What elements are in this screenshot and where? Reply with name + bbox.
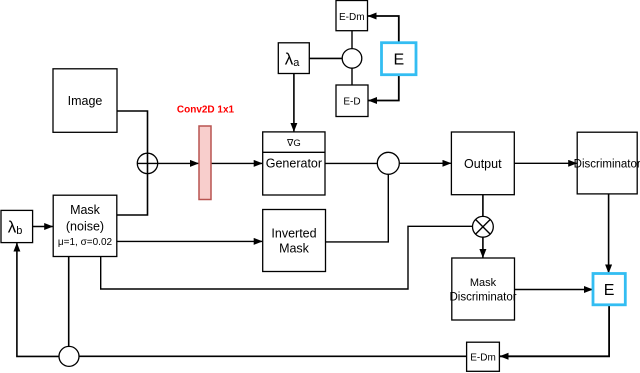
loss combine circle top	[342, 49, 362, 69]
wire loss circle to E-D	[351, 68, 353, 85]
svg-text:μ=1, σ=0.02: μ=1, σ=0.02	[58, 237, 113, 248]
Conv2D 1x1 layer bar	[199, 126, 211, 200]
E expectation box bottom	[593, 274, 625, 305]
wire E top to E-Dm top	[368, 16, 399, 43]
wire Mask Discriminator to E bottom	[515, 289, 593, 291]
Generator box	[263, 132, 325, 195]
output combine circle	[377, 152, 399, 174]
wire output circle to Output	[399, 162, 451, 164]
E-D box	[336, 85, 368, 117]
wire E bottom to E-Dm bottom	[500, 305, 609, 357]
Inverted Mask box	[263, 210, 326, 272]
Mask (noise) box	[53, 195, 117, 256]
E-Dm bottom box	[467, 342, 500, 371]
wire Inverted Mask to output circle	[326, 174, 389, 242]
svg-text:E-D: E-D	[343, 96, 360, 107]
Image box	[53, 69, 117, 133]
wire Conv2D to Generator	[211, 162, 262, 164]
Conv2D 1x1 label	[177, 105, 235, 116]
wire loss circle to E-Dm top	[351, 31, 353, 49]
svg-text:Image: Image	[68, 94, 103, 108]
wire E-Dm bottom to feedback circle	[79, 355, 467, 357]
svg-text:∇G: ∇G	[286, 138, 301, 149]
svg-text:E-Dm: E-Dm	[470, 352, 496, 363]
svg-text:E: E	[604, 282, 615, 299]
wire Mask to feedback circle	[68, 257, 70, 347]
Discriminator box	[574, 132, 640, 194]
wire E top to E-D	[369, 75, 399, 101]
sum node circle-plus	[137, 153, 157, 173]
E expectation box top	[382, 43, 417, 75]
Output box	[451, 132, 514, 195]
wire lambda-a to loss circle	[309, 57, 342, 59]
wire Output to product node	[482, 195, 484, 217]
wire product node to Mask Discriminator	[482, 237, 484, 257]
svg-text:E: E	[393, 51, 404, 68]
wire feedback circle to lambda-b	[17, 243, 59, 356]
wire lambda-a to Generator	[293, 74, 295, 132]
wire lambda-b to Mask	[33, 226, 53, 228]
svg-text:Conv2D 1x1: Conv2D 1x1	[177, 105, 235, 116]
svg-text:(noise): (noise)	[66, 220, 104, 234]
product node circle-times	[473, 216, 494, 237]
Mask Discriminator box	[449, 258, 516, 320]
wire sum node to Conv2D	[138, 162, 199, 164]
lambda-a box	[278, 43, 309, 74]
wire Image to sum node	[117, 111, 148, 215]
svg-text:Mask: Mask	[70, 203, 101, 217]
feedback circle bottom-left	[59, 346, 79, 366]
svg-text:Inverted: Inverted	[271, 227, 316, 241]
svg-text:Mask: Mask	[279, 242, 310, 256]
svg-text:Mask: Mask	[470, 277, 497, 289]
svg-text:Discriminator: Discriminator	[449, 291, 516, 303]
E-Dm top box	[336, 1, 368, 31]
wire Generator to output circle	[325, 162, 377, 164]
svg-text:E-Dm: E-Dm	[339, 12, 365, 23]
svg-text:Discriminator: Discriminator	[574, 158, 640, 170]
wire Mask to Inverted Mask	[117, 240, 262, 242]
wire Output to Discriminator	[514, 162, 576, 164]
svg-text:Generator: Generator	[266, 157, 322, 171]
lambda-b box	[1, 210, 33, 242]
wire Discriminator to E bottom	[608, 194, 610, 273]
wire Mask to product node	[101, 226, 472, 289]
svg-text:Output: Output	[464, 157, 502, 171]
